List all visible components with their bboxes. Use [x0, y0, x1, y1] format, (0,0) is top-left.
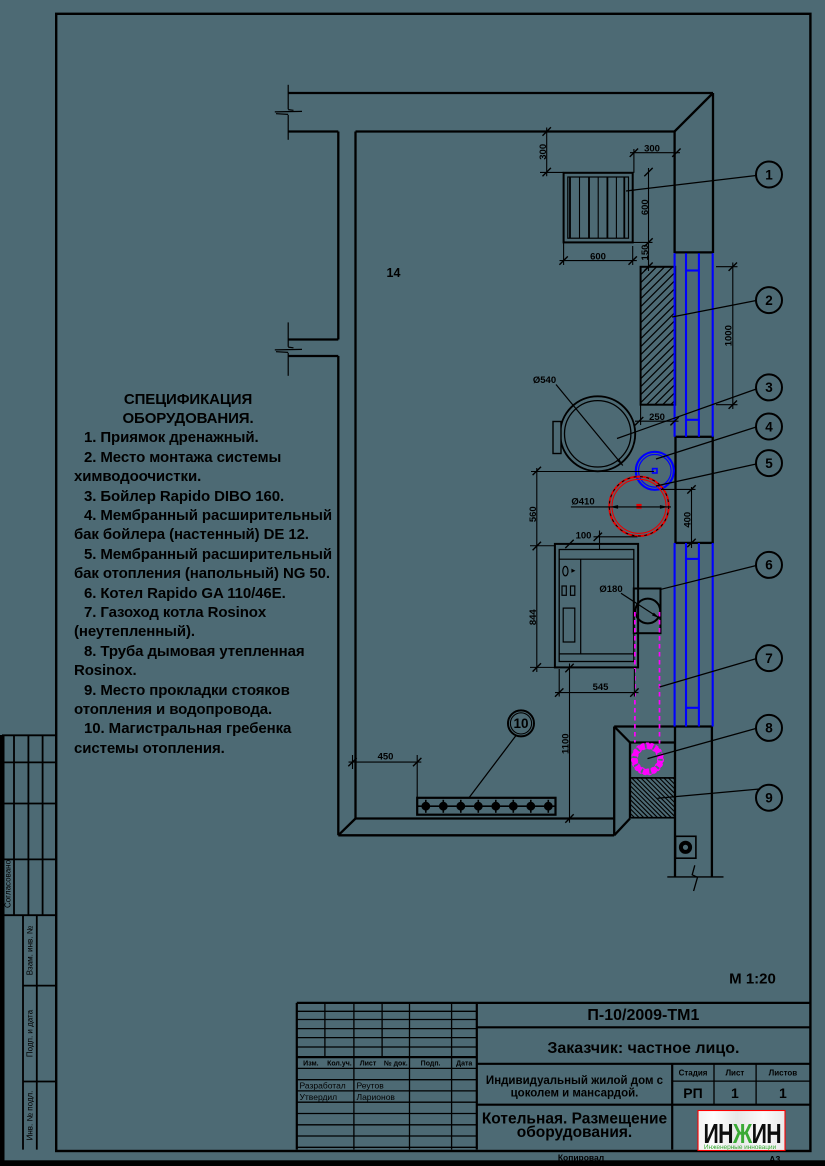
callout circle 9 — [756, 785, 782, 811]
leader D540 diagonal — [556, 385, 623, 466]
wall pier between openings — [676, 437, 713, 543]
dim 545 below boiler — [555, 692, 639, 694]
boiler DIBO stub rect — [553, 422, 561, 454]
drainage pit item 1 outer — [564, 173, 633, 243]
blue riser crossbars — [686, 269, 699, 271]
svg-text:8: 8 — [765, 721, 773, 736]
svg-text:Индивидуальный жилой дом с: Индивидуальный жилой дом с — [486, 1075, 664, 1087]
donut vent box outside — [676, 836, 696, 858]
left table Vzam inv — [22, 915, 24, 1149]
svg-text:600: 600 — [590, 251, 606, 262]
svg-text:1100: 1100 — [561, 733, 572, 754]
bottom wall inner line — [356, 817, 615, 819]
ground line — [667, 876, 723, 878]
title block left rows — [297, 1010, 477, 1012]
svg-text:3: 3 — [765, 380, 773, 395]
svg-text:Изм.: Изм. — [303, 1061, 319, 1068]
boiler GA110 inner rect — [559, 550, 634, 662]
dim 1000 vertical right of wall — [732, 263, 734, 410]
svg-text:Лист: Лист — [725, 1069, 744, 1078]
left wall outer upper — [337, 132, 339, 340]
svg-text:Лист: Лист — [360, 1061, 377, 1068]
svg-text:Дата: Дата — [456, 1061, 472, 1068]
callout circle 6 — [756, 552, 782, 578]
donut vent ring — [681, 843, 690, 852]
chimney niche inner miter bottom — [614, 819, 630, 836]
svg-text:Ларионов: Ларионов — [357, 1092, 396, 1102]
callout circle 8 — [756, 715, 782, 741]
leader to callout 2 — [672, 301, 756, 318]
svg-text:300: 300 — [538, 144, 549, 160]
blue riser lines upper section — [674, 253, 676, 437]
chimney niche inner miter top — [614, 727, 630, 743]
drainage pit inner — [568, 177, 629, 238]
break symbol top wall — [287, 85, 289, 110]
svg-text:9: 9 — [765, 791, 773, 806]
blue riser lines lower section — [674, 543, 676, 727]
svg-text:1: 1 — [765, 167, 773, 182]
right wall inner upper — [673, 132, 675, 254]
callout circle 3 — [756, 374, 782, 400]
callout circle 7 — [756, 645, 782, 671]
flue circle D180 — [635, 599, 660, 624]
svg-text:Утвердил: Утвердил — [300, 1092, 338, 1102]
left wall inner line — [354, 132, 356, 819]
title block left columns verticals — [296, 1003, 298, 1150]
svg-text:Подп.: Подп. — [421, 1061, 441, 1068]
svg-text:Инв. № подл.: Инв. № подл. — [26, 1091, 35, 1141]
hatched rect item 2 chem water treatment — [641, 267, 649, 275]
svg-text:Ø180: Ø180 — [599, 584, 622, 595]
callout circle 4 — [756, 414, 782, 440]
svg-text:6: 6 — [765, 558, 773, 573]
svg-text:Реутов: Реутов — [357, 1081, 385, 1091]
svg-text:цоколем и мансардой.: цоколем и мансардой. — [511, 1087, 639, 1099]
dim 1100 vertical — [569, 664, 571, 823]
svg-text:Ø540: Ø540 — [533, 375, 556, 386]
lintel line above riser niche — [675, 251, 713, 253]
heating manifold item 10 — [417, 798, 555, 815]
svg-text:1000: 1000 — [723, 325, 734, 346]
svg-text:4: 4 — [765, 419, 773, 434]
svg-text:Заказчик: частное лицо.: Заказчик: частное лицо. — [547, 1040, 739, 1057]
svg-text:Ø410: Ø410 — [571, 496, 594, 507]
chimney niche middle wall — [674, 727, 676, 877]
chimney niche outer left wall — [613, 727, 615, 836]
dim 250 below hatch — [635, 420, 679, 422]
svg-text:№ док.: № док. — [384, 1060, 408, 1068]
branch wall bottom line — [288, 355, 338, 357]
uninsulated flue dashed magenta lines item 7 — [634, 612, 636, 743]
svg-text:7: 7 — [765, 651, 773, 666]
logo INZHIN — [698, 1111, 785, 1151]
svg-text:10: 10 — [513, 716, 528, 731]
left table Soglasovano — [2, 734, 56, 736]
dim 300 horizontal right of pit — [630, 152, 680, 154]
dim 450 bottom left — [349, 761, 422, 763]
dim 600 horizontal below pit — [560, 260, 637, 262]
svg-text:5: 5 — [765, 456, 773, 471]
svg-text:600: 600 — [640, 199, 651, 215]
right wall outer lower — [711, 727, 713, 877]
ground break symbol bottom right — [692, 865, 697, 891]
svg-text:Подп. и дата: Подп. и дата — [26, 1009, 35, 1057]
flue circle diagonal leader — [621, 593, 660, 618]
svg-text:1: 1 — [731, 1085, 739, 1101]
svg-text:450: 450 — [378, 751, 394, 762]
boiler panel oval — [563, 566, 568, 575]
leader to callout 1 — [626, 176, 756, 192]
title block stadia verticals — [671, 1064, 673, 1150]
boiler GA110 item 6 outer rect — [555, 544, 638, 668]
leader to callout 3 — [617, 389, 756, 439]
callout circle 10 — [508, 710, 534, 736]
svg-text:2: 2 — [765, 293, 773, 308]
svg-text:Стадия: Стадия — [679, 1069, 708, 1078]
svg-text:РП: РП — [683, 1085, 702, 1101]
chimney niche inner top line — [630, 741, 675, 743]
boiler GA110 top band line — [559, 558, 634, 560]
svg-text:Согласовано: Согласовано — [4, 859, 13, 908]
expansion tank NG50 item 5 red circle — [609, 477, 668, 536]
bottom wall outer line — [338, 834, 614, 836]
svg-text:14: 14 — [387, 266, 401, 280]
left wall outer lower — [337, 356, 339, 835]
leader to callout 8 — [648, 728, 757, 758]
dim 600 vertical right of pit — [648, 168, 650, 242]
svg-text:Копировал: Копировал — [558, 1152, 604, 1162]
dim 300 vertical top left of pit — [546, 128, 548, 177]
svg-text:100: 100 — [576, 531, 592, 542]
boiler GA110 bottom band line — [559, 653, 634, 655]
chimney niche inner left wall — [629, 743, 631, 819]
bottom page edge bar — [0, 1160, 825, 1166]
boiler panel tall rect — [563, 608, 575, 642]
leader to callout 9 — [658, 789, 760, 798]
boiler panel triangle — [571, 569, 575, 573]
chimney niche top line — [614, 725, 712, 727]
boiler panel squares — [562, 586, 566, 595]
callout circle 5 — [756, 450, 782, 476]
bottom-left corner miter — [338, 819, 355, 836]
dim 150 vertical — [648, 242, 650, 271]
svg-text:Листов: Листов — [769, 1069, 798, 1078]
svg-text:1: 1 — [779, 1085, 787, 1101]
svg-text:400: 400 — [683, 512, 694, 528]
leader to callout 10 — [469, 736, 516, 798]
boiler DIBO circle item 3 outer — [560, 396, 635, 471]
dim 400 at pier — [691, 487, 693, 548]
title block main horizontals — [297, 1002, 811, 1004]
right wall outer upper — [712, 93, 714, 253]
svg-text:250: 250 — [649, 412, 665, 423]
expansion tank DE12 item 4 blue circle — [636, 452, 674, 490]
branch wall top line — [288, 338, 338, 340]
break symbol branch wall — [287, 322, 289, 346]
svg-text:Взам. инв. №: Взам. инв. № — [26, 925, 35, 975]
svg-text:М 1:20: М 1:20 — [729, 971, 776, 988]
left page edge bar — [0, 735, 5, 1166]
svg-text:А3: А3 — [769, 1154, 780, 1164]
svg-text:Инженерные инновации: Инженерные инновации — [704, 1144, 777, 1151]
callout circle 1 — [756, 162, 782, 188]
insulated chimney item 8 magenta circle — [635, 746, 661, 772]
svg-text:545: 545 — [593, 682, 610, 693]
dim 560 vertical left — [536, 468, 538, 672]
svg-text:150: 150 — [640, 245, 651, 261]
hatched square item 9 — [630, 778, 675, 818]
svg-text:844: 844 — [528, 609, 539, 626]
leader to callout 7 — [660, 659, 757, 687]
svg-text:300: 300 — [644, 144, 660, 155]
dim 844 boiler height — [533, 663, 541, 671]
leader to callout 4 — [656, 427, 756, 459]
svg-text:П-10/2009-ТМ1: П-10/2009-ТМ1 — [587, 1007, 699, 1024]
boiler GA110 panel divider — [580, 559, 582, 654]
flue box at boiler — [634, 589, 661, 634]
top wall inner line right part — [356, 130, 675, 132]
top-right corner miter — [675, 93, 714, 132]
svg-text:560: 560 — [528, 506, 539, 522]
svg-text:оборудования.: оборудования. — [517, 1124, 633, 1141]
svg-text:Разработал: Разработал — [300, 1081, 346, 1091]
top wall outer line — [288, 92, 713, 94]
leader to callout 6 — [661, 566, 756, 590]
svg-text:Кол.уч.: Кол.уч. — [327, 1061, 352, 1068]
drainage pit grate lines — [569, 177, 571, 238]
leader to callout 5 — [656, 464, 756, 486]
callout circle 2 — [756, 287, 782, 313]
boiler DIBO circle inner — [565, 401, 631, 467]
top wall inner line left part — [288, 130, 338, 132]
